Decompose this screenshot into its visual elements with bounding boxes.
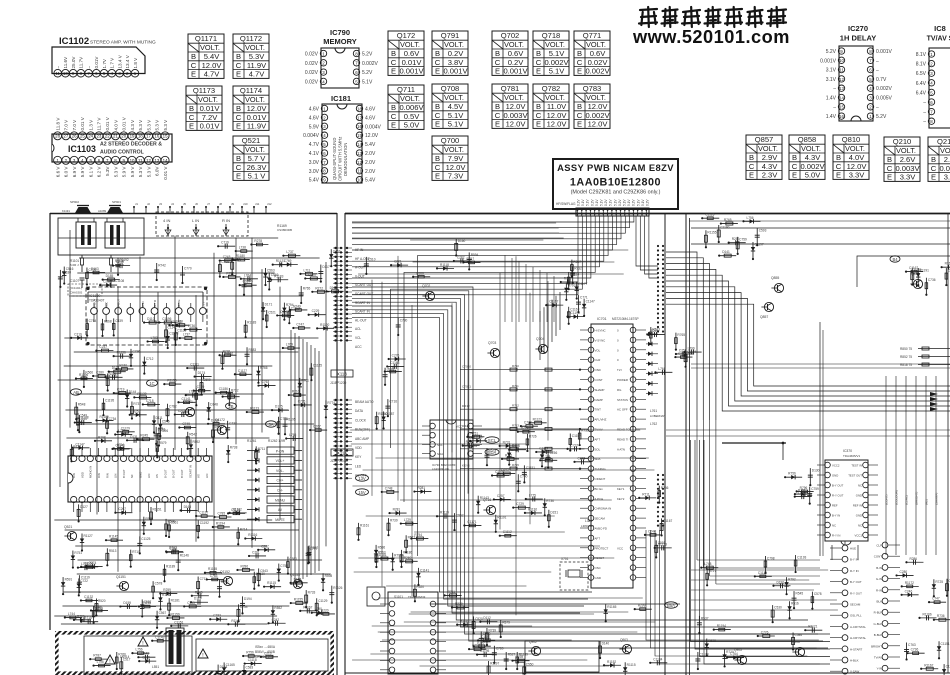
- node oval 13V: [356, 475, 369, 481]
- svg-text:IC270: IC270: [848, 24, 868, 33]
- svg-text:R1197: R1197: [490, 662, 499, 666]
- svg-text:!: !: [109, 659, 110, 665]
- svg-text:!: !: [142, 641, 143, 647]
- svg-text:11: 11: [839, 68, 844, 73]
- capacitor: [141, 599, 143, 616]
- transistor Q1153: [293, 579, 302, 588]
- svg-text:12.0V: 12.0V: [247, 104, 268, 113]
- svg-text:R1121: R1121: [276, 259, 285, 263]
- svg-text:C539: C539: [115, 319, 123, 323]
- svg-text:C235: C235: [142, 656, 150, 660]
- svg-text:BUS(OFF): BUS(OFF): [355, 428, 370, 432]
- svg-text:R274: R274: [521, 426, 529, 430]
- svg-text:0.2V: 0.2V: [604, 199, 608, 206]
- capacitor: [809, 468, 811, 485]
- svg-text:9: 9: [323, 178, 326, 183]
- svg-text:C762: C762: [169, 404, 177, 408]
- capacitor: [159, 322, 176, 324]
- resistor: [325, 400, 327, 417]
- svg-text:R774: R774: [327, 401, 335, 405]
- svg-text:B: B: [435, 49, 440, 58]
- resistor: [103, 279, 120, 281]
- diode: [917, 268, 919, 285]
- svg-text:R568: R568: [104, 319, 112, 323]
- svg-text:D140: D140: [602, 642, 610, 646]
- wire: [192, 595, 209, 597]
- svg-text:B: B: [749, 153, 754, 162]
- capacitor: [307, 546, 309, 563]
- svg-text:J5: J5: [183, 202, 186, 206]
- diode: [685, 351, 702, 353]
- svg-text:4: 4: [323, 133, 326, 138]
- svg-text:VS: VS: [197, 474, 201, 478]
- diode: [934, 619, 950, 621]
- svg-text:12.0V: 12.0V: [506, 120, 527, 129]
- diode: [205, 572, 222, 574]
- svg-text:C250: C250: [679, 348, 687, 352]
- wire: [920, 617, 937, 619]
- resistor: [772, 605, 774, 622]
- capacitor: [76, 377, 93, 379]
- svg-text:S1101: S1101: [394, 595, 403, 599]
- wire: [113, 318, 115, 335]
- svg-text:B: B: [435, 154, 440, 163]
- svg-text:R286: R286: [240, 564, 248, 568]
- svg-text:5.2V: 5.2V: [362, 70, 373, 76]
- svg-text:R1115: R1115: [627, 663, 636, 667]
- svg-text:7: 7: [930, 110, 933, 115]
- svg-text:R1166: R1166: [923, 612, 932, 616]
- svg-text:X11A: X11A: [337, 451, 347, 456]
- svg-text:VOLT.: VOLT.: [245, 95, 265, 104]
- middle block horizontal wires: [350, 240, 654, 654]
- transistor voltage table Q711: [388, 85, 424, 130]
- svg-text:AVBC-FD: AVBC-FD: [595, 527, 607, 531]
- svg-text:0.2V: 0.2V: [577, 199, 581, 206]
- capacitor: [258, 568, 260, 585]
- svg-text:0.02V: 0.02V: [588, 58, 609, 67]
- svg-text:25: 25: [80, 134, 85, 139]
- svg-text:J11: J11: [255, 202, 260, 206]
- svg-text:3: 3: [869, 95, 872, 100]
- svg-text:C1132: C1132: [84, 595, 93, 599]
- wire: [221, 352, 223, 369]
- transistor Q810: [913, 279, 922, 288]
- wire: [494, 498, 511, 500]
- wire: [137, 438, 154, 440]
- svg-text:C213: C213: [264, 651, 272, 655]
- wire: [171, 625, 188, 627]
- svg-text:12.0V: 12.0V: [202, 61, 223, 70]
- svg-text:E: E: [435, 67, 440, 76]
- capacitor: [786, 577, 788, 594]
- svg-text:R220: R220: [321, 608, 329, 612]
- diode: [572, 266, 574, 283]
- svg-text:R792: R792: [788, 578, 796, 582]
- transistor voltage table Q1171: [188, 34, 224, 79]
- svg-text:(CONT): (CONT): [885, 495, 889, 506]
- transistor voltage table Q718: [533, 31, 569, 76]
- capacitor: [106, 376, 123, 378]
- svg-text:A2 STEREO DECODER &: A2 STEREO DECODER &: [100, 142, 162, 148]
- svg-text:B: B: [931, 155, 936, 164]
- svg-text:C224: C224: [243, 280, 251, 284]
- svg-text:8.1V: 8.1V: [916, 52, 927, 58]
- transistor voltage table Q858: [789, 135, 825, 180]
- svg-text:2: 2: [930, 62, 933, 67]
- svg-text:(SHARP): (SHARP): [935, 493, 939, 505]
- svg-text:MUTE: MUTE: [275, 518, 285, 522]
- svg-text:D112: D112: [483, 616, 491, 620]
- svg-text:R-Y IN: R-Y IN: [832, 534, 840, 538]
- svg-text:0.003V: 0.003V: [503, 111, 528, 120]
- svg-text:C273: C273: [578, 456, 586, 460]
- svg-text:Q1172: Q1172: [215, 418, 225, 422]
- svg-text:R749: R749: [293, 304, 301, 308]
- wire: [237, 569, 254, 571]
- resistor: [228, 388, 230, 405]
- svg-text:4 IN: 4 IN: [163, 218, 170, 223]
- svg-text:C229: C229: [312, 309, 320, 313]
- svg-text:A1089: A1089: [98, 209, 107, 213]
- svg-text:C769: C769: [284, 259, 292, 263]
- svg-text:D156: D156: [550, 451, 558, 455]
- svg-text:Q903: Q903: [620, 638, 628, 642]
- svg-text:C1147: C1147: [75, 442, 84, 446]
- diode: [792, 632, 794, 649]
- svg-text:4.3 V: 4.3 V: [130, 119, 135, 131]
- capacitor: [230, 512, 247, 514]
- capacitor: [120, 605, 137, 607]
- svg-text:–: –: [833, 86, 836, 92]
- svg-text:5: 5: [323, 142, 326, 147]
- svg-text:R1180: R1180: [224, 352, 233, 356]
- svg-text:0.001V: 0.001V: [443, 67, 468, 76]
- IC IC1101 body: [68, 456, 212, 502]
- capacitor: [227, 445, 229, 462]
- svg-text:0.002V: 0.002V: [939, 164, 950, 173]
- svg-text:Q1152: Q1152: [220, 570, 230, 574]
- wire: [194, 390, 211, 392]
- svg-text:C759: C759: [739, 237, 747, 241]
- svg-text:VCC: VCC: [617, 546, 623, 550]
- diode: [166, 404, 168, 421]
- svg-text:11.6V: 11.6V: [63, 56, 68, 69]
- svg-text:8: 8: [323, 169, 326, 174]
- wire: [167, 617, 184, 619]
- capacitor: [453, 513, 455, 530]
- resistor: [168, 520, 170, 537]
- svg-text:E: E: [236, 70, 241, 79]
- svg-text:Q1173: Q1173: [193, 86, 215, 95]
- svg-text:5.1V: 5.1V: [581, 199, 585, 206]
- svg-text:C569: C569: [271, 273, 279, 277]
- svg-text:VOLT.: VOLT.: [758, 144, 778, 153]
- resistor: [661, 518, 663, 535]
- svg-text:IC701: IC701: [597, 317, 607, 321]
- transistor Q1171: [185, 407, 194, 416]
- resistor: [167, 331, 169, 348]
- svg-text:4: 4: [930, 81, 933, 86]
- resistor: [143, 357, 145, 374]
- svg-text:SCL: SCL: [437, 443, 443, 447]
- speaker SP901: [107, 207, 123, 213]
- wire: [139, 660, 156, 662]
- svg-text:C267: C267: [118, 507, 126, 511]
- svg-text:C: C: [495, 111, 501, 120]
- capacitor: [272, 409, 289, 411]
- transistor voltage table Q1173: [186, 86, 222, 131]
- svg-text:J8: J8: [219, 202, 222, 206]
- svg-text:C583: C583: [246, 665, 254, 669]
- svg-text:SCART IN: SCART IN: [188, 465, 192, 478]
- svg-text:SECAM: SECAM: [595, 517, 606, 521]
- transistor Q1172: [217, 425, 226, 434]
- svg-text:AFT: AFT: [595, 437, 601, 441]
- svg-text:V-SAW: V-SAW: [850, 670, 859, 674]
- diode: [86, 267, 88, 284]
- wire: [437, 515, 454, 517]
- diode: [95, 599, 97, 616]
- middle bottom wires: [352, 614, 655, 666]
- svg-text:VOLT.: VOLT.: [545, 40, 565, 49]
- svg-text:E: E: [189, 122, 194, 131]
- svg-text:7.0 V: 7.0 V: [64, 119, 69, 131]
- svg-text:24: 24: [88, 134, 93, 139]
- resistor: [517, 474, 519, 491]
- svg-text:Q791: Q791: [441, 31, 460, 40]
- svg-text:Q771: Q771: [583, 31, 602, 40]
- svg-text:5.9 V: 5.9 V: [130, 166, 135, 178]
- transistor Q704: [538, 344, 547, 353]
- IC IC1100 pin row: [91, 299, 207, 323]
- svg-text:13V: 13V: [358, 476, 366, 481]
- svg-text:Q172: Q172: [397, 31, 416, 40]
- svg-text:27: 27: [63, 134, 68, 139]
- resistor: [480, 631, 482, 648]
- small box C102: [367, 587, 385, 606]
- svg-text:(R2): (R2): [925, 499, 929, 505]
- svg-text:OSD: OSD: [595, 368, 601, 372]
- svg-text:L729: L729: [404, 518, 411, 522]
- svg-text:IC1102: IC1102: [59, 36, 89, 47]
- right long wires mid: [691, 363, 950, 365]
- transistor Q716: [486, 505, 495, 514]
- svg-text:0.01V: 0.01V: [402, 58, 423, 67]
- svg-text:H-SYNC: H-SYNC: [595, 329, 606, 333]
- capacitor: [330, 249, 332, 266]
- capacitor: [169, 324, 186, 326]
- svg-text:Q1151: Q1151: [116, 575, 126, 579]
- diode: [212, 425, 214, 442]
- diode: [164, 564, 166, 581]
- resistor: [764, 556, 766, 573]
- svg-text:D127: D127: [80, 505, 88, 509]
- middle and right block top border wire: [345, 213, 950, 215]
- resistor: [413, 276, 430, 278]
- svg-text:R766: R766: [260, 366, 268, 370]
- svg-text:R762: R762: [564, 277, 572, 281]
- svg-text:R1194: R1194: [216, 521, 225, 525]
- resistor: [376, 412, 378, 429]
- svg-text:R799: R799: [394, 553, 402, 557]
- resistor: [288, 306, 290, 323]
- svg-text:5: 5: [930, 90, 933, 95]
- capacitor: [401, 523, 418, 525]
- svg-text:RIN: RIN: [97, 473, 101, 478]
- svg-text:5.3 V: 5.3 V: [146, 166, 151, 178]
- svg-text:R766: R766: [109, 372, 117, 376]
- svg-text:1: 1: [323, 106, 326, 111]
- svg-text:!: !: [202, 653, 203, 659]
- svg-text:CT010: CT010: [462, 365, 471, 369]
- svg-text:0.002V: 0.002V: [585, 111, 610, 120]
- wire: [167, 551, 184, 553]
- svg-text:B: B: [236, 104, 241, 113]
- svg-text:C754: C754: [240, 605, 248, 609]
- IC701 input rows components: [460, 364, 581, 470]
- svg-text:H-START: H-START: [850, 647, 862, 651]
- svg-text:C244: C244: [648, 529, 656, 533]
- svg-text:C: C: [435, 163, 441, 172]
- transformer box outline: [58, 218, 144, 255]
- svg-text:C1193: C1193: [797, 556, 806, 560]
- transistor Q702: [425, 291, 434, 300]
- IC IC790 body: [321, 48, 359, 88]
- resistor: [291, 582, 308, 584]
- transistor voltage table Q702: [492, 31, 528, 76]
- wire: [278, 564, 280, 581]
- svg-text:C754: C754: [89, 319, 97, 323]
- wire: [269, 622, 286, 624]
- bottom right corners wires: [686, 440, 830, 664]
- svg-text:ABC AMP: ABC AMP: [355, 437, 369, 441]
- svg-text:R711: R711: [448, 590, 456, 594]
- svg-text:0.6V: 0.6V: [404, 49, 421, 58]
- capacitor: [655, 371, 672, 373]
- svg-text:R1145: R1145: [109, 535, 118, 539]
- svg-text:16: 16: [357, 124, 362, 129]
- svg-text:C: C: [536, 58, 542, 67]
- svg-text:C798: C798: [221, 260, 229, 264]
- svg-text:16: 16: [839, 114, 844, 119]
- svg-text:SECAM: SECAM: [850, 603, 861, 607]
- svg-text:5.1V: 5.1V: [549, 49, 566, 58]
- svg-text:C718: C718: [146, 399, 154, 403]
- svg-text:VDD: VDD: [355, 446, 362, 450]
- resistor: [658, 486, 660, 503]
- svg-text:11: 11: [138, 158, 143, 163]
- components right of IC701 upper: [646, 332, 658, 396]
- svg-text:AV: AV: [278, 508, 283, 512]
- svg-text:13: 13: [357, 151, 362, 156]
- svg-text:R1172: R1172: [905, 581, 914, 585]
- transistor voltage table Q1172: [233, 34, 269, 79]
- capacitor: [289, 394, 306, 396]
- svg-text:0: 0: [617, 348, 619, 352]
- capacitor: [921, 668, 938, 670]
- key switch ladder boxes: [247, 447, 302, 523]
- resistor: [724, 649, 726, 666]
- IC IC1103 top pins: [54, 116, 170, 140]
- wire: [109, 371, 126, 373]
- svg-text:4.6V: 4.6V: [309, 115, 320, 121]
- svg-text:6.0 V: 6.0 V: [64, 166, 69, 178]
- diode: [755, 575, 772, 577]
- capacitor: [943, 664, 945, 675]
- svg-text:VOLT.: VOLT.: [845, 144, 865, 153]
- svg-text:C785: C785: [217, 512, 225, 516]
- svg-text:VOLT.: VOLT.: [198, 95, 218, 104]
- capacitor: [389, 358, 406, 360]
- svg-text:L24C08F-101: L24C08F-101: [432, 467, 450, 471]
- resistor: [130, 414, 147, 416]
- svg-text:R257: R257: [466, 257, 474, 261]
- svg-text:5: 5: [869, 77, 872, 82]
- resistor: [650, 327, 652, 344]
- diode: [317, 327, 334, 329]
- svg-text:11.8 V: 11.8 V: [55, 117, 60, 131]
- svg-text:R-Y IN: R-Y IN: [850, 569, 859, 573]
- capacitor: [249, 555, 266, 557]
- svg-text:R710: R710: [132, 550, 140, 554]
- svg-text:C740: C740: [520, 475, 528, 479]
- transistor voltage table Q211: [928, 137, 950, 182]
- svg-text:3.0V: 3.0V: [309, 160, 320, 166]
- svg-text:(IC1102-): (IC1102-): [70, 286, 82, 290]
- svg-text:1AA0B10E12800: 1AA0B10E12800: [570, 177, 661, 189]
- svg-text:0.002V: 0.002V: [800, 162, 825, 171]
- resistor: [357, 523, 359, 540]
- capacitor: [72, 551, 74, 568]
- node oval 2B: [226, 403, 237, 409]
- svg-text:E: E: [577, 120, 582, 129]
- resistor: [493, 646, 495, 663]
- svg-text:E: E: [236, 122, 241, 131]
- diode: [86, 319, 88, 336]
- diode: [583, 299, 585, 316]
- svg-text:Q855: Q855: [771, 276, 779, 280]
- IC IC801 body: [929, 48, 950, 128]
- svg-text:C1192: C1192: [200, 521, 209, 525]
- svg-text:C1107: C1107: [70, 279, 79, 283]
- wire: [185, 329, 202, 331]
- svg-text:TDA4665/V1: TDA4665/V1: [843, 454, 861, 458]
- svg-text:C282: C282: [457, 255, 465, 259]
- svg-text:LIN: LIN: [147, 474, 151, 478]
- wire: [383, 411, 385, 428]
- resistor: [283, 255, 300, 257]
- svg-text:2.3V: 2.3V: [762, 171, 779, 180]
- svg-text:OSC: OSC: [595, 566, 601, 570]
- svg-text:IC790: IC790: [330, 28, 350, 37]
- svg-text:(C2RC): (C2RC): [905, 495, 909, 505]
- diode: [165, 325, 167, 342]
- svg-text:C792: C792: [483, 632, 491, 636]
- svg-text:B-OUT: B-OUT: [117, 299, 121, 309]
- svg-text:4.7V: 4.7V: [309, 142, 320, 148]
- wire: [266, 310, 268, 327]
- svg-text:R742: R742: [158, 264, 166, 268]
- svg-text:C1143: C1143: [155, 635, 164, 639]
- svg-text:5.1V: 5.1V: [448, 120, 465, 129]
- capacitor: [295, 404, 312, 406]
- svg-text:R259: R259: [163, 588, 171, 592]
- svg-text:C1141: C1141: [168, 325, 177, 329]
- svg-text:0.01 V: 0.01 V: [105, 116, 110, 130]
- wire: [706, 568, 708, 585]
- svg-text:C715: C715: [187, 601, 195, 605]
